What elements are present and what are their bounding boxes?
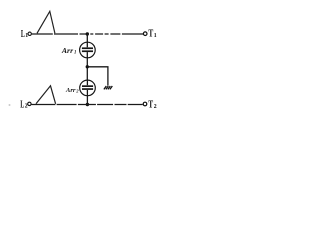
junction mid node <box>86 65 89 68</box>
arrester Arr2 (gas discharge tube) <box>80 80 96 96</box>
svg-text:L: L <box>20 99 24 110</box>
svg-text:1: 1 <box>154 33 157 39</box>
svg-text:Arr: Arr <box>65 87 76 94</box>
arrester Arr1 (gas discharge tube) <box>80 42 96 58</box>
svg-text:1: 1 <box>25 33 28 39</box>
terminal L2 circle <box>28 102 31 105</box>
paper speck <box>9 104 11 106</box>
junction top node <box>86 32 89 35</box>
svg-text:2: 2 <box>75 88 79 93</box>
wire Arr1 to Arr2 <box>86 58 88 80</box>
terminal L1 circle <box>28 32 31 35</box>
svg-text:2: 2 <box>154 104 157 110</box>
terminal T2 circle <box>143 102 147 106</box>
wire top rail L1 to T1 <box>32 33 143 35</box>
wire junction to Arr1 <box>86 34 88 42</box>
surge impulse symbol on line 2 <box>36 86 56 104</box>
junction bottom node <box>86 103 89 106</box>
svg-text:2: 2 <box>25 104 28 110</box>
ground symbol <box>104 86 112 89</box>
terminal T1 circle <box>143 32 147 36</box>
svg-text:Arr: Arr <box>61 47 74 55</box>
wire Arr2 to bottom rail <box>86 96 88 105</box>
svg-text:1: 1 <box>74 51 76 56</box>
wire bottom rail L2 to T2 <box>31 104 143 106</box>
wire branch to ground <box>87 67 108 86</box>
svg-text:L: L <box>21 29 25 40</box>
surge impulse symbol on line 1 <box>37 11 55 33</box>
